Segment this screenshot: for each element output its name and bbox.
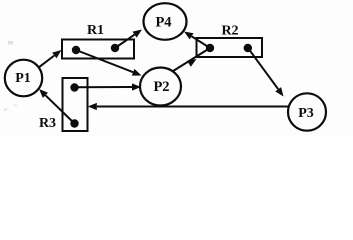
wire arc R1 token1 to P2: [76, 50, 142, 76]
token R2 right: [244, 44, 252, 52]
transition R1 box: [62, 40, 134, 59]
token R3 top: [70, 83, 78, 91]
scan speckle: [14, 104, 17, 107]
svg-text:P1: P1: [15, 71, 31, 86]
svg-text:P3: P3: [298, 106, 314, 121]
wire arc R2 token1 to P4: [184, 32, 210, 49]
transition R3 box: [63, 78, 88, 131]
svg-text:R1: R1: [87, 23, 104, 38]
token R2 left: [206, 44, 214, 52]
svg-text:P2: P2: [153, 79, 169, 95]
wire arc R1 token2 to P4: [115, 30, 142, 49]
place P2: [140, 68, 181, 106]
svg-text:R3: R3: [39, 116, 56, 131]
wire arc R3 token2 to P1: [39, 89, 75, 124]
wire arc P2 to R2 token1: [172, 48, 211, 72]
wire arc P3 to R3: [88, 103, 289, 110]
token R1 left: [72, 46, 80, 54]
wire arc R3 token1 to P2: [75, 83, 142, 90]
svg-text:P4: P4: [155, 14, 171, 30]
svg-text:R2: R2: [221, 23, 238, 38]
scan speckle: [4, 108, 7, 111]
transition R2 box: [197, 38, 263, 57]
place P1: [5, 60, 42, 97]
place P4: [144, 3, 187, 40]
token R1 right: [111, 44, 119, 52]
wire arc R2 token2 to P3: [248, 48, 284, 97]
scan speckle: [8, 41, 13, 45]
place P3: [288, 93, 326, 130]
token R3 bottom: [70, 119, 78, 127]
wire arc P1 to R1: [40, 50, 62, 67]
